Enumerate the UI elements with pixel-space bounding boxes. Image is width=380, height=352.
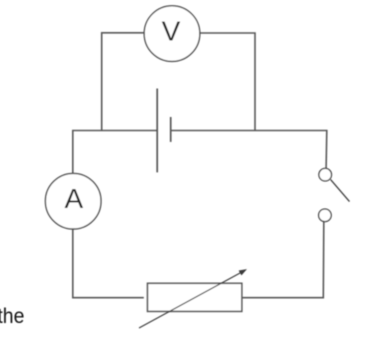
switch S1 top contact circle <box>319 168 332 181</box>
wire: top-left corner / battery row left <box>73 131 157 174</box>
svg-text:the: the <box>0 304 24 328</box>
ammeter A circle <box>45 173 101 229</box>
wire: battery row right to top-right corner down to switch <box>171 131 326 169</box>
variable resistor R1 body <box>148 283 242 311</box>
switch S1 bottom contact circle <box>319 209 332 222</box>
wire: left vertical below ammeter to bottom-left corner <box>73 229 144 298</box>
wire: bottom right from rheostat to bottom-right corner up to switch <box>242 222 324 298</box>
voltmeter V circle <box>144 6 200 62</box>
svg-text:V: V <box>162 15 181 46</box>
wire: voltmeter branch right (horizontal from V, vertical down to battery wire) <box>200 33 255 131</box>
battery B1 short plate <box>170 117 172 142</box>
variable resistor R1 arrow <box>139 270 246 328</box>
switch S1 lever <box>331 180 350 202</box>
svg-text:A: A <box>64 183 83 214</box>
wire: voltmeter branch left (vertical up from battery wire, horizontal to V) <box>102 33 145 131</box>
battery B1 long plate <box>156 89 158 173</box>
